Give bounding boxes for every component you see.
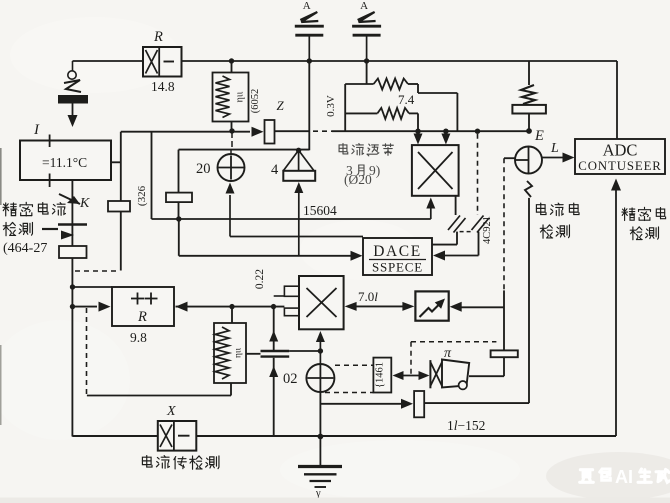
sense X2 dash (178, 435, 190, 437)
svg-text:π: π (444, 346, 452, 361)
wire rail drop x366 (366, 61, 368, 84)
wire dashes node (313, 130, 332, 132)
wire L1 to node E (528, 114, 530, 132)
svg-text:γ: γ (315, 488, 321, 499)
resistor R9 box (214, 323, 246, 383)
svg-text:14.8: 14.8 (151, 79, 175, 94)
resistor R4 on feedback (108, 201, 130, 212)
isolator X1 rect (414, 391, 424, 417)
junction dot G2 (271, 304, 276, 309)
svg-text:=11.1°C: =11.1°C (42, 155, 87, 170)
wire rail drop x309 (308, 61, 310, 150)
dashed link switches (460, 231, 474, 233)
resistor R3 (precision shunt) (59, 246, 87, 258)
svg-text:7.4: 7.4 (398, 92, 415, 107)
arrow node to Rc (73, 302, 111, 312)
label 7.0l (358, 289, 378, 304)
label 精密电流 (3, 202, 66, 216)
wire SW1 to DACE (432, 232, 457, 245)
label ADC (603, 141, 638, 160)
summer U20 stub (230, 150, 232, 155)
label (326 rotated (136, 185, 148, 206)
label 电流电 (536, 203, 579, 216)
wire C2 down (273, 358, 275, 437)
cap A1 squiggle (300, 12, 318, 22)
wire summer row (179, 149, 310, 151)
cap A2 plate2 (353, 34, 381, 37)
arrow into M2 bottom (316, 331, 325, 351)
svg-text:L: L (550, 141, 559, 156)
label E (534, 128, 544, 144)
svg-text:A: A (303, 0, 311, 12)
junction dot H (318, 348, 323, 353)
resistor R6 lead right (409, 113, 418, 131)
cap marks ++ (131, 293, 158, 305)
label CONTUSEER (578, 159, 661, 173)
wire U2 left stub (504, 157, 515, 159)
wire source to I box with arrow (68, 104, 78, 128)
label 检测 (mid) (540, 225, 569, 238)
buffer Q1 circle (459, 381, 467, 389)
ground bar3 (310, 480, 332, 482)
wire U2 to ADC with arrow (542, 153, 575, 163)
svg-text:X: X (166, 404, 176, 419)
arrow into Rc right (176, 302, 285, 312)
label 20 (196, 161, 211, 177)
cap C2 plate bottom (261, 355, 290, 357)
junction dot C1 (415, 129, 420, 134)
ground bar4 (315, 486, 327, 488)
wire 15604 row (152, 218, 431, 220)
ground bar1 (298, 465, 342, 468)
double arrow 1461-Q1 (393, 371, 430, 380)
inductor L1 squiggle (521, 85, 535, 104)
svg-text:(326: (326 (136, 185, 148, 206)
dashed line from C3 (477, 134, 479, 215)
svg-text:AI: AI (615, 467, 633, 487)
label 4C921 rotated (482, 216, 493, 244)
label (6052 rotated (250, 89, 261, 114)
label DACE (369, 243, 426, 260)
svg-text:(464-27: (464-27 (3, 241, 47, 256)
M2 tab pin2 (284, 308, 298, 316)
multiplier M2 X (307, 288, 337, 317)
svg-text:(6052: (6052 (250, 89, 261, 114)
antenna T4 triangle (284, 150, 314, 171)
source S1 circle (68, 71, 76, 79)
wire R9 bottom (230, 383, 232, 396)
ADC box (575, 139, 665, 174)
ground bar2 (304, 473, 337, 475)
multiplier M1 X (418, 152, 453, 189)
resistor R6 lead left (345, 112, 377, 114)
label I (33, 122, 40, 138)
dashed drop x86 (86, 308, 88, 394)
junction dot D (296, 148, 301, 153)
arrow into M1 bottom (426, 198, 435, 220)
wire feedback vertical (120, 132, 122, 271)
dashed drop x504 (503, 158, 505, 290)
label script-x (166, 404, 176, 419)
label 1461 rotated (375, 362, 386, 388)
label 7.4 (398, 92, 415, 107)
svg-text:0.22: 0.22 (254, 269, 266, 289)
resistor R9 label (234, 348, 244, 359)
svg-text:02: 02 (283, 371, 298, 387)
wire rail drop x529 (528, 61, 530, 85)
antenna T4 base rect (283, 171, 315, 181)
resistor R2 label (235, 91, 246, 102)
wire R2 to node (231, 122, 233, 132)
wire rail to R2 (231, 61, 233, 73)
edge artifact left 1 (0, 148, 2, 205)
valve Q1 bar (429, 360, 431, 388)
wire rail to ADC (616, 61, 618, 139)
label K (79, 196, 90, 211)
wire to slope box (450, 302, 504, 312)
wire U02 top stub (319, 351, 321, 364)
modulator R divider (158, 47, 160, 77)
svg-text:{1461: {1461 (375, 362, 386, 388)
svg-text:DACE: DACE (373, 243, 422, 260)
value 14.8 (151, 79, 175, 94)
value 9.8 (130, 330, 147, 345)
label (464-27 (3, 241, 47, 256)
wire X1 to sense (424, 402, 529, 404)
current sense squiggle (525, 181, 532, 197)
node E dot (526, 128, 532, 134)
svg-text:(Ø20: (Ø20 (344, 172, 372, 187)
svg-text:ηιι: ηιι (234, 348, 244, 359)
slope box (415, 291, 448, 320)
switch SW2 (472, 216, 490, 233)
junction dot rail-R2 (229, 58, 234, 63)
label 0.22 rotated (254, 269, 266, 289)
ground stem (319, 437, 321, 466)
svg-text:I: I (33, 122, 40, 138)
label SSPECE (372, 260, 423, 275)
wire SW2 to DACE arrow (433, 232, 479, 261)
cap A1 plate1 (295, 25, 324, 28)
label 精密电 (622, 207, 666, 220)
resistor R2 zigzag (216, 76, 230, 118)
svg-text:Z: Z (277, 98, 285, 113)
stub below node B (231, 131, 233, 147)
modulator R X mark (146, 50, 158, 74)
wire return row (87, 395, 231, 397)
dashed link I-feedback (75, 270, 119, 272)
dashed U02-1461 top (335, 364, 373, 366)
svg-text:SSPECE: SSPECE (372, 260, 423, 275)
modulator R box (143, 47, 182, 77)
svg-text:15604: 15604 (303, 203, 337, 218)
label 15604 (303, 203, 337, 218)
wire bottom rail right (196, 435, 616, 437)
wire Z to vertical (275, 130, 310, 132)
multiplier M2 box (299, 276, 344, 329)
svg-text:A: A (360, 0, 368, 12)
arrow into Z (252, 127, 264, 137)
wire I box down segment (71, 180, 73, 246)
arrow into summer U20 (226, 183, 235, 237)
node A2 dot (70, 304, 75, 309)
wire bottom to ADC (611, 179, 621, 437)
edge artifact bottom band (0, 498, 670, 503)
resistor R7 (166, 193, 192, 203)
modulator R dash (164, 61, 175, 63)
dashed Q1 box top (411, 341, 496, 343)
edge artifact left 2 (0, 345, 2, 425)
cap A2 squiggle (358, 12, 376, 22)
summer U20 cross (219, 156, 244, 180)
svg-text:K: K (79, 196, 90, 211)
wire R7 to row (178, 202, 180, 219)
double arrow M2-slope (345, 302, 415, 311)
M2 tab pin1 (284, 286, 298, 296)
multiplier M1 box (412, 145, 459, 196)
wire loop bottom row (332, 130, 529, 132)
wire to DACE left (179, 219, 363, 261)
switch K stroke (59, 194, 80, 204)
wire node row y131 (121, 131, 250, 133)
wire M1 out down (455, 196, 457, 215)
wire loop left vertical (344, 84, 346, 131)
resistor R6 zigzag (377, 108, 409, 119)
wire R3 to node A (71, 258, 73, 437)
source S1 spring squiggle (64, 80, 81, 92)
label 4 (271, 162, 279, 178)
wire x504 solid (503, 290, 505, 350)
wire node to Rc top (73, 286, 113, 288)
svg-text:R: R (137, 309, 147, 325)
label L (550, 141, 559, 156)
label 3月9) (346, 163, 380, 178)
junction dot rail-A2cap (364, 58, 369, 63)
switch SW1 (448, 216, 466, 233)
arrow into mult M1 a (414, 131, 423, 144)
wire U02 down (319, 392, 321, 437)
cap A2 plate1 (352, 25, 381, 28)
cap C2 stub right (289, 350, 320, 352)
cap A1 plate2 (295, 34, 323, 37)
slope box arrow glyph (420, 299, 446, 318)
cap C2 stub left (246, 353, 261, 355)
label 1l-152 (447, 418, 485, 433)
junction dot C3 (475, 129, 480, 134)
svg-text:1l−152: 1l−152 (447, 418, 485, 433)
label 检测 (3, 222, 58, 235)
svg-text:4: 4 (271, 162, 279, 178)
junction dot F (176, 216, 181, 221)
summer U02 circle (306, 364, 334, 392)
arrow up mark 1 (269, 331, 278, 342)
DACE box (363, 238, 432, 275)
sensor arrow mark (61, 231, 74, 240)
wire cap A1 to rail (308, 37, 310, 62)
dashed U02-1461 bottom (325, 392, 373, 394)
resistor R5 zigzag (374, 79, 408, 90)
label 检测 (right) (630, 227, 658, 240)
junction dot GND (318, 434, 324, 440)
svg-text:ADC: ADC (603, 141, 638, 160)
junction dot rail-A1cap (307, 58, 312, 63)
cap C2 plate top (261, 350, 290, 352)
sensor plate bar (58, 223, 87, 226)
wire antenna T4 drive (294, 182, 303, 256)
sense box X2 (158, 421, 197, 451)
value =11.1°C (42, 155, 87, 170)
junction dot G1 (229, 304, 234, 309)
comparator Z rect (265, 120, 275, 144)
wire G2 down (273, 307, 275, 350)
wire drop x151 (151, 132, 153, 219)
arrow into mult M1 b (441, 131, 450, 144)
label Z (277, 98, 285, 113)
buffer Q1 body (442, 360, 469, 388)
wire top rail left segment (73, 60, 144, 62)
label R (cap box) (137, 309, 147, 325)
svg-text:CONTUSEER: CONTUSEER (578, 159, 661, 173)
wire cap A2 to rail (366, 37, 368, 62)
summer U2 circle (515, 147, 542, 174)
svg-text:R: R (153, 29, 163, 45)
node A1 dot (70, 284, 75, 289)
wire bottom rail left (72, 435, 157, 437)
svg-text:20: 20 (196, 161, 211, 177)
summer U20 circle (218, 154, 245, 181)
wire DACE feed row (230, 236, 363, 238)
watermark 豆包AI生成 (580, 467, 670, 487)
label A (A1) (303, 0, 311, 12)
label 0.3V rotated (325, 95, 337, 117)
inductor L1 rect (512, 105, 546, 114)
label 02 (283, 371, 298, 387)
junction dot C2 (443, 129, 448, 134)
label Q1 pi (444, 346, 452, 361)
label R (top) (153, 29, 163, 45)
label (O20 (344, 172, 372, 187)
junction dot B (229, 128, 234, 133)
svg-text:E: E (534, 128, 544, 144)
resistor R8 (491, 350, 518, 357)
sense X2 divider (173, 421, 175, 451)
wire top rail (182, 60, 618, 62)
resistor R9 zigzag (215, 327, 229, 379)
wire source stub to rail (72, 61, 74, 71)
summer U2 cross (515, 147, 529, 174)
svg-text:7.0l: 7.0l (358, 289, 378, 304)
ground label (315, 488, 321, 499)
wire R8 to buffer (469, 357, 504, 376)
cap box Rc (112, 287, 174, 326)
arrow up mark 2 (269, 366, 278, 377)
wire R7 up to summer row (178, 150, 180, 193)
summer U02 cross (307, 365, 333, 391)
source S1 bar (filled) (58, 95, 88, 104)
wire sense drop x529 (528, 198, 530, 403)
block 1461 rect (373, 358, 391, 393)
resistor R5 lead right (408, 84, 457, 131)
dashed Q1 box left (410, 342, 412, 376)
meter I box (20, 141, 111, 181)
svg-text:9.8: 9.8 (130, 330, 147, 345)
wire tab stub (274, 295, 285, 297)
label A (A2) (360, 0, 368, 12)
wire U02 out row (320, 399, 413, 409)
label 电流传检测 (142, 456, 219, 470)
svg-text:ηιι: ηιι (235, 91, 246, 102)
wire G1 to R9 (231, 307, 233, 323)
wire I box output (111, 161, 121, 163)
resistor R5 lead left (345, 83, 373, 85)
sense X2 X mark (160, 425, 172, 448)
svg-text:4C921: 4C921 (482, 216, 493, 244)
watermark backdrop (546, 452, 670, 500)
svg-text:0.3V: 0.3V (325, 95, 337, 117)
meter I box bottom tick (49, 174, 51, 188)
valve Q1 bowtie (430, 362, 442, 386)
meter I box top tick (49, 135, 51, 148)
label 电流边苯 (339, 144, 393, 156)
resistor R2 box (213, 73, 249, 122)
